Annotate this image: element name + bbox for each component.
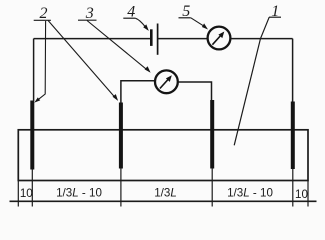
bottom dimension line <box>10 200 317 202</box>
wire: second electrode up and right to galvanometer <box>121 81 155 103</box>
label 1 <box>269 3 281 20</box>
dimension divider at bar left edge <box>17 180 19 207</box>
wire: ammeter to right corner <box>231 38 293 40</box>
electrode 2c (third contact) <box>210 100 214 169</box>
leader from 2 to left electrode <box>34 21 45 103</box>
electrode 2a (left contact) <box>30 101 34 170</box>
battery B (item 4) short thick plate <box>150 29 153 46</box>
ammeter PA (item 5) body <box>208 27 231 50</box>
label 5 <box>179 3 191 20</box>
wire: galvanometer right to third electrode <box>178 82 211 100</box>
svg-text:10: 10 <box>295 188 308 201</box>
dimension divider under left electrode <box>31 169 33 207</box>
galvanometer PV needle <box>160 75 172 88</box>
svg-text:10: 10 <box>20 187 33 200</box>
label 4 <box>123 3 135 20</box>
leader from 2 to second electrode <box>48 21 118 101</box>
svg-text:1/3L: 1/3L <box>154 187 177 200</box>
dimension divider under third electrode <box>211 168 213 207</box>
electrode 2d (right contact) <box>291 102 295 170</box>
specimen bar outline (item 1) <box>18 130 308 181</box>
wire: battery to ammeter <box>158 38 207 40</box>
dimension divider under right electrode <box>292 169 294 207</box>
ammeter PA needle <box>212 32 224 45</box>
leader from 5 to ammeter <box>191 18 208 30</box>
leader from 4 to battery <box>135 18 149 31</box>
svg-text:1/3L - 10: 1/3L - 10 <box>227 187 273 200</box>
svg-text:3: 3 <box>85 5 94 22</box>
galvanometer PV (item 3) body <box>155 70 178 93</box>
wire: left rail from top wire to left electrode <box>33 39 35 101</box>
leader from 1 to specimen bar <box>234 17 269 145</box>
wire: right rail down to right electrode <box>292 39 294 102</box>
electrode 2b (second contact) <box>119 103 123 169</box>
label 2 <box>34 5 51 22</box>
leader from 3 to galvanometer <box>87 21 151 73</box>
dimension divider under second electrode <box>120 168 122 207</box>
battery B (item 4) long thin plate <box>157 24 159 55</box>
svg-text:2: 2 <box>40 5 48 22</box>
svg-text:1/3L - 10: 1/3L - 10 <box>56 187 102 200</box>
wire: top horizontal to battery <box>34 38 151 40</box>
dimension divider at bar right edge <box>307 180 309 207</box>
label 3 <box>78 5 97 22</box>
